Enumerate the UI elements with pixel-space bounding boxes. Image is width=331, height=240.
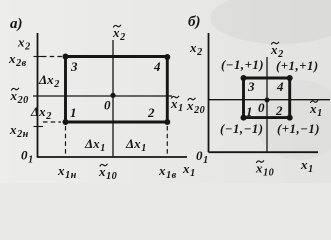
svg-text:(−1,+1): (−1,+1) bbox=[221, 58, 264, 72]
dashed line y-axis to corner 3 bbox=[42, 56, 62, 58]
dashed line corner 2 down to x-axis bbox=[166, 126, 168, 156]
right plot square 1-2-4-3 bbox=[244, 78, 290, 118]
svg-text:4: 4 bbox=[153, 59, 161, 74]
dashed line corner 1 down to x-axis bbox=[65, 126, 67, 156]
left plot x-axis bbox=[37, 156, 187, 158]
center dot of left rectangle bbox=[110, 93, 115, 98]
corner dots of right square bbox=[241, 75, 293, 121]
svg-text:(+1,−1): (+1,−1) bbox=[277, 122, 320, 136]
left plot y-axis bbox=[37, 33, 39, 157]
right plot y-axis bbox=[208, 33, 210, 152]
corner dots of left rectangle bbox=[63, 54, 171, 126]
svg-text:2: 2 bbox=[147, 105, 155, 120]
tildes over x glyphs bbox=[12, 25, 318, 166]
svg-text:3: 3 bbox=[247, 79, 255, 94]
svg-text:1: 1 bbox=[70, 105, 77, 120]
svg-text:1: 1 bbox=[246, 104, 253, 119]
tick on y-axis at x2n bbox=[34, 126, 44, 128]
center dot of right square bbox=[265, 98, 270, 103]
svg-text:4: 4 bbox=[276, 79, 284, 94]
svg-text:2: 2 bbox=[275, 103, 283, 118]
svg-text:б): б) bbox=[188, 14, 200, 30]
tick on y-axis at x2v bbox=[34, 56, 43, 58]
left plot center vertical line bbox=[112, 40, 114, 157]
svg-text:(−1,−1): (−1,−1) bbox=[220, 122, 264, 136]
svg-text:а): а) bbox=[10, 16, 23, 32]
dashed line y-axis to corner 1 bbox=[43, 121, 61, 123]
svg-text:3: 3 bbox=[70, 59, 78, 74]
right plot x-axis bbox=[209, 151, 319, 153]
svg-text:(+1,+1): (+1,+1) bbox=[276, 59, 319, 73]
svg-text:0: 0 bbox=[104, 98, 111, 113]
left plot center horizontal line bbox=[33, 95, 172, 97]
svg-text:0: 0 bbox=[258, 100, 265, 115]
right center vertical line bbox=[266, 57, 268, 152]
right center horizontal line bbox=[209, 99, 331, 101]
left plot rectangle 1-2-4-3 bbox=[66, 57, 168, 123]
